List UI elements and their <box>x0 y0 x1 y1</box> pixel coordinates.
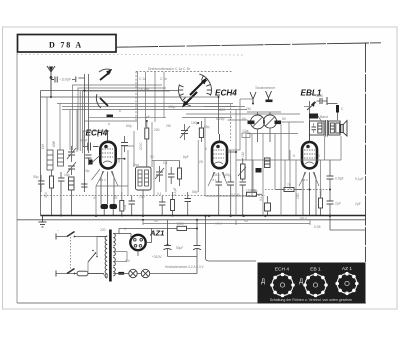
wire: L-drop to panel <box>206 216 257 261</box>
resistor R1 <box>50 170 54 216</box>
coil L6 <box>265 158 271 168</box>
antenna <box>47 66 55 83</box>
svg-text:Д: Д <box>261 279 265 285</box>
svg-text:100p: 100p <box>213 173 221 177</box>
IF transformer T1 coil b <box>263 112 276 142</box>
svg-text:4: 4 <box>124 227 126 231</box>
svg-text:2 3 4: 2 3 4 <box>99 178 106 182</box>
pickup terminal J1 <box>250 92 256 104</box>
svg-text:MW: MW <box>52 140 56 147</box>
svg-text:15-490: 15-490 <box>139 88 149 92</box>
transformer T3 primary winding <box>105 236 107 278</box>
svg-text:AZ 1: AZ 1 <box>342 266 352 272</box>
wire: horizontal feed 4 <box>62 106 236 108</box>
trimmer capacitor CT1 <box>67 146 76 162</box>
resistor R5 <box>171 192 175 216</box>
switch S3 mains top <box>67 232 104 238</box>
IF output can T2a <box>310 121 325 135</box>
electrolytic capacitor C7 black <box>110 204 118 209</box>
rotary switch S1 wafer C small arcs left <box>96 69 112 108</box>
wire: tube1 cathode drops <box>101 177 114 216</box>
output transformer T2 core <box>325 120 327 137</box>
wire: mid verticals extra <box>96 104 341 216</box>
svg-text:15p: 15p <box>64 173 70 177</box>
wire: horizontal feed 2 <box>41 96 183 98</box>
svg-text:0,1: 0,1 <box>259 196 263 201</box>
resistor R6 horizontal <box>247 192 263 196</box>
pickup terminal J2 <box>266 91 272 100</box>
capacitor C5 beside tube1 <box>121 136 128 152</box>
value labels batch2 <box>57 77 321 263</box>
wire: right border vertical <box>365 43 367 262</box>
wire: gang verticals <box>138 72 164 130</box>
wire: sub bus drops <box>143 220 310 225</box>
dashed link EBL1 <box>265 189 330 191</box>
inductor L5 Band black <box>309 114 328 120</box>
svg-text:50p: 50p <box>33 175 39 179</box>
svg-text:5: 5 <box>293 154 295 158</box>
wire: pickup left feed <box>240 98 253 100</box>
svg-text:50µF: 50µF <box>176 246 183 250</box>
wire: sub bus segment <box>143 223 310 225</box>
wire: antenna feed verticals <box>78 74 88 192</box>
svg-text:+310V: +310V <box>152 255 162 259</box>
svg-text:a: a <box>108 122 110 126</box>
svg-text:1200: 1200 <box>177 222 184 226</box>
svg-text:0,1µF: 0,1µF <box>355 177 364 181</box>
resistor R10 box <box>199 121 203 142</box>
wire: EBL1 lower drops <box>285 160 316 216</box>
pickup ground bar <box>266 100 273 103</box>
wire: mid horizontals extra <box>83 131 341 196</box>
capacitor C12 <box>185 192 192 216</box>
black component small <box>256 168 262 173</box>
svg-text:0,1: 0,1 <box>163 161 168 165</box>
ground symbol <box>39 216 47 228</box>
svg-text:50k: 50k <box>123 204 127 210</box>
pilot lamp LP1 <box>129 269 137 277</box>
wire: mains bottom lead <box>56 273 77 275</box>
output transformer T2 secondary <box>329 121 341 135</box>
wire: switch outputs right <box>182 107 300 118</box>
electrolytic capacitor C21 <box>164 246 172 257</box>
svg-text:25: 25 <box>199 160 203 164</box>
capacitor C23 beside tube1 <box>85 155 91 165</box>
svg-text:50: 50 <box>282 117 286 121</box>
wire: antenna drop to feeds <box>50 83 52 97</box>
wire: heater run <box>113 257 197 274</box>
resistor R4 <box>178 161 182 186</box>
svg-text:~110pF: ~110pF <box>59 78 72 82</box>
svg-text:0,1: 0,1 <box>93 194 97 199</box>
capacitor C14 <box>228 176 235 216</box>
svg-text:2µF: 2µF <box>335 202 341 206</box>
transformer T3 secondary winding 2 <box>113 248 115 256</box>
capacitor C16 IF black <box>275 121 282 125</box>
tube V4 AZ1 rectifier envelope <box>130 235 145 250</box>
svg-text:1M: 1M <box>241 152 245 157</box>
svg-text:0,5µF: 0,5µF <box>335 177 344 181</box>
resistor R2 <box>120 192 124 216</box>
junction dots on bus <box>95 215 331 217</box>
speaker LS1 <box>341 121 347 137</box>
wire: mains top lead <box>56 236 67 238</box>
wire: tube2 plate to IF <box>182 97 240 150</box>
electrolytic capacitor C22 <box>193 246 201 257</box>
svg-text:50pF: 50pF <box>80 139 88 143</box>
wire: HT lead up and to AZ1 <box>113 229 167 239</box>
black panel: tube socket diagrams <box>258 263 366 304</box>
svg-text:8µF: 8µF <box>183 155 189 159</box>
svg-text:ECH 4: ECH 4 <box>275 267 289 273</box>
resistor R8 <box>319 192 323 216</box>
grid cap blob tube1 <box>89 160 93 165</box>
fuse F1 <box>77 271 104 276</box>
resistor R3 <box>145 121 149 167</box>
coil L3 <box>69 177 75 216</box>
wire: tube2 right lead <box>227 151 237 153</box>
svg-text:490p: 490p <box>168 105 176 109</box>
trimmer capacitor CT4 <box>155 166 164 182</box>
box Cga label <box>242 129 250 138</box>
svg-text:6800: 6800 <box>218 108 226 112</box>
svg-text:EB 1: EB 1 <box>310 267 321 273</box>
tube U2 ECH4 envelope <box>212 134 227 178</box>
wire: top border line <box>116 43 381 47</box>
capacitor C8 <box>129 196 136 216</box>
wire: EBL1 plate up to transformer <box>298 116 325 160</box>
wire: vertical taps to coils <box>47 97 77 152</box>
capacitor C4 <box>58 172 65 216</box>
coil core bar under switch <box>107 115 114 118</box>
tube1 pin fan <box>92 169 119 186</box>
svg-text:90: 90 <box>154 219 158 223</box>
supply bus <box>17 219 366 221</box>
svg-text:Heizfadenstrom 0,2 A 6,3 V: Heizfadenstrom 0,2 A 6,3 V <box>165 265 204 269</box>
svg-text:LW: LW <box>41 143 45 149</box>
trimmer capacitor CT3 <box>180 124 190 140</box>
potentiometer P1 volume <box>238 158 246 181</box>
tube U1 ECH4 envelope <box>100 131 115 178</box>
svg-text:AO 2: AO 2 <box>215 222 222 226</box>
svg-text:50p: 50p <box>192 190 198 194</box>
wire: AZ1 cathode out <box>113 229 151 262</box>
capacitor C20 right rail <box>327 201 334 230</box>
svg-text:150: 150 <box>296 193 300 199</box>
svg-text:220: 220 <box>100 228 106 232</box>
svg-text:50: 50 <box>114 195 118 199</box>
wire: filter verticals <box>168 220 198 246</box>
svg-text:450: 450 <box>44 192 48 198</box>
wire: left link rows <box>85 117 167 121</box>
svg-text:6: 6 <box>205 147 207 151</box>
svg-text:Д: Д <box>299 279 303 285</box>
svg-text:7 8 2: 7 8 2 <box>301 178 308 182</box>
svg-text:−: − <box>57 229 59 233</box>
capacitor C18 <box>240 182 247 216</box>
wire: horizontal feed 3 <box>57 103 233 105</box>
svg-text:0,1µF: 0,1µF <box>173 188 177 197</box>
wire: left frame vertical <box>16 52 18 303</box>
svg-text:20p: 20p <box>84 169 90 173</box>
svg-text:Cga: Cga <box>243 129 249 133</box>
svg-text:9: 9 <box>318 154 320 158</box>
svg-text:2µF: 2µF <box>355 202 361 206</box>
wire: faint rule under title <box>17 53 243 56</box>
svg-text:2M: 2M <box>246 107 251 111</box>
dashed AVC line <box>41 195 266 197</box>
capacitor C15 IF black <box>248 121 255 125</box>
svg-text:Tonabnehmer: Tonabnehmer <box>255 86 276 90</box>
capacitor C10 <box>168 167 175 184</box>
transformer T3 secondary heater winding <box>113 268 115 276</box>
IF transformer T1 coil a <box>251 112 265 142</box>
svg-text:7 8 1: 7 8 1 <box>210 178 217 182</box>
oscillator coil box L4 <box>136 167 152 190</box>
transformer T3 core <box>109 230 112 282</box>
svg-text:Band: Band <box>320 115 328 119</box>
capacitor C19 right rail <box>327 160 334 201</box>
svg-text:8: 8 <box>97 134 99 138</box>
wire: BM extra verticals <box>154 134 290 197</box>
svg-text:C 1a: C 1a <box>139 77 146 81</box>
rotary switch S1 wafer A <box>190 74 212 96</box>
wire: tube1 grid cap lead <box>83 143 99 151</box>
wire: bottom frame line <box>17 302 366 304</box>
svg-text:pF: pF <box>146 115 150 119</box>
svg-text:Schaltung der Röhren u. Verbin: Schaltung der Röhren u. Verbind. von unt… <box>270 298 353 302</box>
title box D 78 A <box>18 35 117 53</box>
pilot lamp LP2 <box>141 269 149 277</box>
dashed enclosure: tuning gang <box>136 67 233 121</box>
tube2 pin fan <box>208 172 228 186</box>
wire: tube1 left lead <box>93 155 101 162</box>
coil L1 antenna <box>47 150 53 170</box>
black bar capacitor power <box>118 272 124 275</box>
trimmer capacitor CT2 <box>67 162 76 175</box>
svg-text:0,1µF: 0,1µF <box>231 193 240 197</box>
svg-text:4 V: 4 V <box>125 259 131 263</box>
svg-text:b: b <box>119 109 121 113</box>
svg-text:50p: 50p <box>225 173 231 177</box>
svg-text:0,1: 0,1 <box>157 192 162 196</box>
svg-text:700: 700 <box>139 195 145 199</box>
transformer T3 secondary winding 3 <box>113 258 115 266</box>
capacitor C24 on antenna drop <box>81 184 87 187</box>
capacitor C1 antenna series <box>51 77 57 83</box>
wire: nested feed corners <box>73 85 171 153</box>
svg-text:200: 200 <box>154 128 160 132</box>
tube3 pin fan <box>299 172 319 186</box>
svg-text:5000: 5000 <box>316 94 323 98</box>
electrolytic capacitor C6 black <box>101 204 109 209</box>
ground bus thick <box>41 215 366 217</box>
wire: primary leads <box>88 237 107 279</box>
voltage selector <box>88 237 98 274</box>
coil L2 antenna <box>58 150 64 166</box>
svg-text:D 78 A: D 78 A <box>49 41 83 50</box>
wire: horizontal feed 1 <box>41 90 179 92</box>
mains plug terminals <box>55 234 57 277</box>
wire: left bus vertical <box>40 91 42 216</box>
svg-text:50: 50 <box>242 117 246 121</box>
value labels scattered <box>33 107 364 210</box>
svg-text:0,05: 0,05 <box>314 225 321 229</box>
svg-text:AO 1: AO 1 <box>300 216 307 220</box>
capacitor C2 input <box>72 77 76 83</box>
wire: filter bottom link <box>168 256 198 258</box>
capacitor C11 <box>159 196 166 216</box>
svg-text:5-25p: 5-25p <box>216 117 225 121</box>
svg-text:2000: 2000 <box>139 142 143 150</box>
svg-text:95: 95 <box>244 219 248 223</box>
svg-text:30: 30 <box>150 155 154 159</box>
svg-text:0,3M: 0,3M <box>319 188 323 196</box>
svg-text:2M: 2M <box>166 124 171 128</box>
wire: EBL1 grid feed <box>304 101 310 134</box>
wire: osc verticals <box>143 117 205 216</box>
tube U3 EBL1 envelope <box>302 134 317 178</box>
wire: IF enclosure lines <box>228 112 299 134</box>
svg-text:C 1b: C 1b <box>160 77 167 81</box>
transformer T3 secondary HT winding <box>113 234 115 247</box>
svg-text:0,5M: 0,5M <box>250 189 258 193</box>
capacitor C13 <box>216 176 223 216</box>
svg-text:30k: 30k <box>117 157 121 163</box>
resistor R7 horizontal <box>276 188 302 192</box>
resistor R9 smoothing <box>168 226 198 230</box>
switch S3 mains bottom <box>67 269 75 275</box>
rotary switch S1 wafer B <box>179 84 198 107</box>
switch link dashed <box>70 234 72 271</box>
svg-text:50p: 50p <box>204 125 210 129</box>
wire: right rail bottom <box>330 229 366 231</box>
headphone jack J3 <box>265 196 271 216</box>
capacitor C3 <box>38 175 45 192</box>
wire: tube1 right lead <box>116 158 126 160</box>
svg-text:Drehkondensator C 1a C 1b: Drehkondensator C 1a C 1b <box>148 67 190 71</box>
switch S2 above EBL1 <box>307 97 327 110</box>
wire: C17 leads <box>327 104 338 121</box>
wire: IF can drops <box>252 124 281 216</box>
svg-text:60p: 60p <box>126 124 132 128</box>
electrolytic capacitor C17 black bar <box>336 105 339 113</box>
